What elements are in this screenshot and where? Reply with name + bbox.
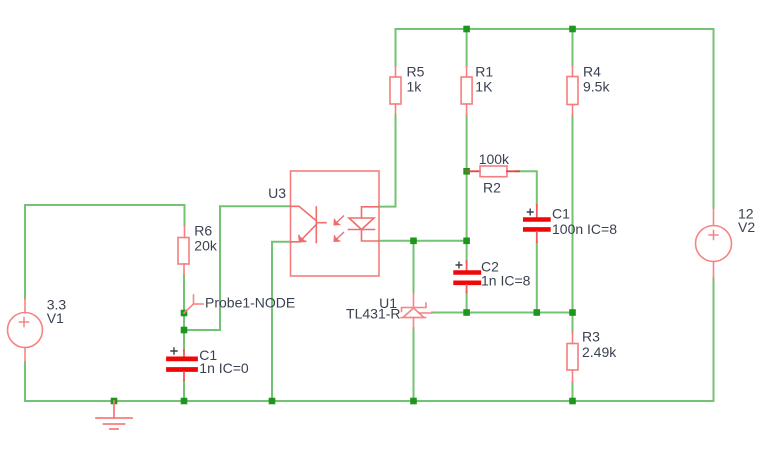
- svg-text:9.5k: 9.5k: [583, 78, 610, 94]
- wire C1 left bottom lead: [183, 380, 185, 401]
- resistor R6: [178, 226, 189, 276]
- label R5: [407, 64, 425, 95]
- label C2: [481, 259, 531, 289]
- svg-text:R1: R1: [475, 64, 493, 80]
- wire R2 right to C1: [516, 171, 537, 205]
- wire U1 cathode drop: [413, 241, 415, 293]
- wire R5 top: [395, 29, 397, 66]
- junction C1 bottom rail: [181, 398, 188, 405]
- label V1: [47, 297, 67, 327]
- label R2: [479, 151, 510, 195]
- wire R3 top lead: [572, 313, 574, 333]
- svg-text:V2: V2: [738, 219, 755, 235]
- wire U1 anode drop: [413, 328, 415, 401]
- label U1: [346, 295, 400, 322]
- wire R3 bottom lead: [572, 382, 574, 401]
- probe Probe1-NODE: [184, 295, 203, 313]
- voltage source V2: [696, 208, 732, 278]
- optocoupler U3 light arrows: [334, 216, 343, 241]
- junction R3 bottom rail: [569, 398, 576, 405]
- svg-text:TL431-R: TL431-R: [346, 306, 400, 322]
- wire R1 column mid: [466, 171, 468, 241]
- ground: [96, 401, 132, 429]
- junction R2 tap: [463, 168, 470, 175]
- svg-text:U3: U3: [268, 185, 286, 201]
- resistor R3: [567, 333, 578, 383]
- optocoupler U3 phototransistor: [291, 206, 327, 242]
- optocoupler U3 box: [291, 171, 380, 276]
- wire top rail: [396, 28, 714, 30]
- label U3: [268, 185, 286, 201]
- svg-text:100k: 100k: [479, 151, 510, 167]
- svg-text:R5: R5: [407, 64, 425, 80]
- junction top rail R4: [569, 26, 576, 33]
- svg-text:R2: R2: [483, 179, 501, 195]
- junction top rail R1: [463, 26, 470, 33]
- wire V1 bottom: [24, 362, 26, 401]
- svg-text:1n IC=8: 1n IC=8: [481, 272, 531, 288]
- capacitor C1 100n: [525, 205, 548, 242]
- wire U3 LED cathode to R1 column: [379, 240, 467, 242]
- svg-text:Probe1-NODE: Probe1-NODE: [205, 295, 295, 311]
- label V2: [738, 206, 755, 236]
- svg-text:1K: 1K: [475, 78, 493, 94]
- capacitor C1 1n: [169, 348, 196, 380]
- label C1 100n: [552, 205, 617, 237]
- label C1 1n: [199, 347, 249, 376]
- svg-text:1n IC=0: 1n IC=0: [199, 360, 249, 376]
- junction probe node: [181, 310, 188, 317]
- wire U3 collector to probe node: [184, 206, 291, 330]
- optocoupler U3 led: [349, 207, 380, 241]
- junction ref R4R3: [569, 309, 576, 316]
- wire R4 bottom long: [572, 116, 574, 313]
- svg-text:R4: R4: [583, 64, 601, 80]
- wire R6 bottom column: [183, 275, 185, 350]
- TL431 U1: [401, 293, 432, 328]
- resistor R2: [467, 166, 519, 177]
- resistor R1: [461, 66, 472, 115]
- junction C2 top: [463, 238, 470, 245]
- label R3: [582, 329, 617, 361]
- junction U1 top: [410, 238, 417, 245]
- svg-text:R6: R6: [194, 222, 212, 238]
- resistor R4: [567, 66, 578, 116]
- voltage source V1: [8, 299, 43, 363]
- wire C2 bottom lead: [466, 292, 468, 313]
- wire R5 bottom to U3 LED anode: [379, 115, 396, 207]
- wire C2 top lead: [466, 241, 468, 262]
- wire V2 top drop: [713, 29, 715, 208]
- wire C1 bottom lead: [536, 242, 538, 313]
- junction U1 anode rail: [410, 398, 417, 405]
- capacitor C2: [456, 261, 479, 293]
- wire R1 top: [466, 29, 468, 66]
- svg-text:R3: R3: [582, 329, 600, 345]
- junction U3 emitter rail: [269, 398, 276, 405]
- svg-text:2.49k: 2.49k: [582, 344, 617, 360]
- junction R6-C1 node: [181, 327, 188, 334]
- resistor R5: [390, 66, 401, 115]
- wire R1 bottom to R2 node: [466, 115, 468, 171]
- junction ref C2: [463, 309, 470, 316]
- wire U1 ref rail: [432, 312, 573, 314]
- wire bottom rail: [25, 400, 714, 402]
- label R6: [194, 222, 218, 253]
- wire U3 emitter drop: [272, 242, 291, 401]
- wire V2 bottom: [713, 278, 715, 401]
- wire V1 top to R6: [25, 205, 185, 299]
- label R1: [475, 64, 493, 95]
- svg-text:100n IC=8: 100n IC=8: [552, 221, 617, 237]
- svg-text:20k: 20k: [194, 237, 218, 253]
- svg-text:V1: V1: [47, 310, 64, 326]
- label Probe1-NODE: [205, 295, 295, 311]
- junction ground: [111, 398, 118, 405]
- svg-text:1k: 1k: [407, 78, 423, 94]
- label R4: [583, 64, 610, 95]
- svg-text:C1: C1: [552, 205, 570, 221]
- junction ref C1: [534, 309, 541, 316]
- wire R4 top: [572, 29, 574, 66]
